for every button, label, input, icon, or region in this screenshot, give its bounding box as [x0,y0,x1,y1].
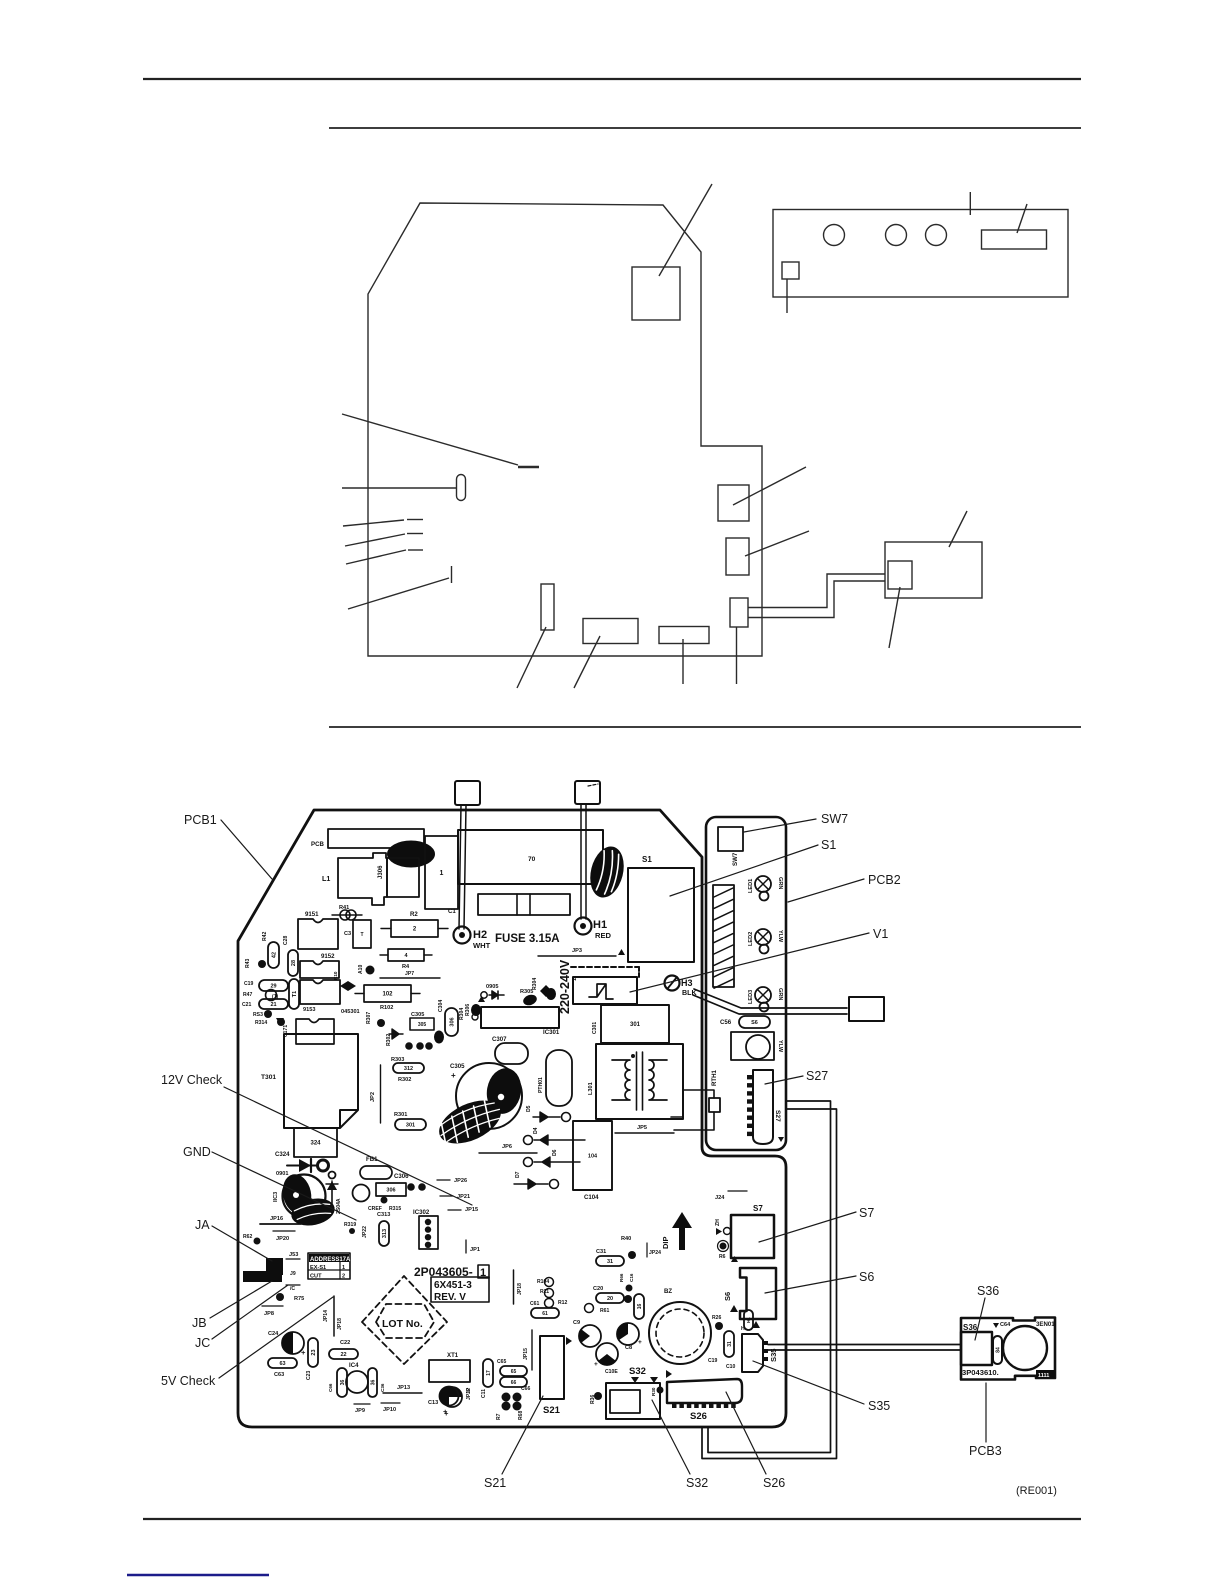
wire : mid page rule [329,726,1081,728]
jumper JP21 [440,1195,453,1197]
pin block bottom right [1036,1370,1055,1378]
svg-text:R43: R43 [245,958,251,968]
svg-text:JP3: JP3 [572,948,582,954]
wire : leader from display unit up [949,511,967,547]
wire : leader 2 with tick [345,534,405,546]
component black electrolytic blob 2 [585,843,629,901]
wire : leader to rect A [733,467,806,505]
connector rect A right side [718,485,749,521]
svg-text:R12: R12 [558,1300,568,1306]
svg-text:301: 301 [406,1122,415,1128]
svg-text:312: 312 [404,1066,413,1072]
svg-text:+: + [444,1409,449,1418]
svg-text:LED2: LED2 [748,932,754,946]
svg-text:S26: S26 [690,1411,707,1422]
node : tick at leader end [518,466,539,469]
svg-text:31: 31 [607,1259,613,1265]
svg-text:J53: J53 [289,1252,298,1258]
svg-text:9151: 9151 [305,911,319,918]
svg-text:R62: R62 [243,1234,253,1240]
wire : leader 1 with tick [343,520,404,526]
svg-text:S6: S6 [723,1292,732,1301]
svg-text:D5: D5 [526,1105,532,1112]
svg-text:16: 16 [637,1304,643,1310]
connector rect C right side [730,598,748,627]
capacitor 104 block [573,1121,612,1190]
svg-text:C171: C171 [283,1025,289,1037]
pad A10 [366,966,375,975]
svg-text:104: 104 [588,1153,598,1159]
svg-text:61: 61 [542,1311,548,1317]
LED1 [755,876,771,892]
terminal H3 [665,976,680,991]
component vertical cap 1 [425,836,458,909]
display window rect [982,230,1047,249]
svg-text:31: 31 [727,1341,733,1347]
wire : S35 to PCB3 twin lead [768,1344,961,1346]
svg-text:V1: V1 [873,927,888,941]
svg-text:RTH1: RTH1 [711,1069,718,1086]
pads R7 R68 [502,1393,511,1402]
wire : leader to vertical rect [517,627,546,688]
svg-text:R61: R61 [600,1308,610,1314]
LOT No. stamp area [362,1276,447,1364]
svg-text:C307: C307 [492,1036,507,1043]
svg-text:3P043610.: 3P043610. [962,1368,999,1377]
svg-text:L301: L301 [588,1082,594,1095]
display unit box [885,542,982,598]
svg-text:H2: H2 [473,929,487,941]
wire : leader below wide rect 2 [682,639,684,684]
svg-text:0901: 0901 [276,1171,288,1177]
svg-text:R75: R75 [294,1296,304,1302]
svg-text:JP12: JP12 [466,1388,472,1400]
svg-text:12V Check: 12V Check [161,1073,223,1087]
component black electrolytic blob 1 [387,841,435,868]
svg-text:JC: JC [195,1336,210,1350]
connector wide rect bottom 2 [659,627,709,644]
svg-text:R302: R302 [398,1077,411,1083]
button circle 2 [886,225,907,246]
pad blob left of 306 [434,1031,444,1044]
svg-text:JP15: JP15 [465,1207,478,1213]
svg-text:JP16: JP16 [270,1216,283,1222]
svg-text:R47: R47 [243,992,253,998]
svg-text:301: 301 [630,1022,641,1028]
svg-text:22: 22 [340,1352,346,1358]
component block right of L1 [387,858,419,897]
jumper JP15 [448,1209,461,1211]
component small circle [353,1185,370,1202]
svg-text:/C: /C [290,1286,295,1292]
component 301 block [601,1005,669,1043]
svg-text:J9: J9 [290,1271,296,1277]
svg-text:84: 84 [995,1347,1001,1353]
svg-text:C31: C31 [596,1249,606,1255]
svg-text:28: 28 [291,960,297,966]
wire : leader on display window [1017,204,1027,233]
svg-text:JP1: JP1 [470,1247,480,1253]
svg-text:+: + [638,1339,642,1346]
wire : lead from spade to H1 [580,804,582,919]
svg-text:C64: C64 [1000,1322,1011,1328]
svg-text:S32: S32 [686,1476,708,1490]
svg-text:R102: R102 [380,1005,393,1011]
resistor R102 [355,993,364,995]
svg-text:JP13: JP13 [397,1385,410,1391]
svg-text:C28: C28 [283,935,289,945]
svg-text:WHT: WHT [473,941,491,950]
svg-text:C56: C56 [720,1019,732,1026]
svg-text:C304: C304 [438,1000,444,1012]
svg-text:PCB2: PCB2 [868,873,901,887]
svg-text:C1: C1 [448,908,456,915]
jumper JA black block [266,1258,283,1275]
svg-text:S1: S1 [821,838,836,852]
terminal H1 [575,918,592,935]
svg-text:JP10: JP10 [383,1407,396,1413]
svg-text:T: T [360,932,363,938]
wire : leader below rect C [736,627,738,684]
button circle 1 [824,225,845,246]
svg-text:220-240V: 220-240V [558,959,572,1014]
svg-text:C21: C21 [242,1002,252,1008]
varistor V1 box [573,977,637,1004]
svg-text:REV. V: REV. V [434,1292,466,1303]
svg-text:2: 2 [342,1274,345,1280]
wire : tick on panel top [969,192,971,215]
svg-text:C63: C63 [274,1372,284,1378]
svg-text:J24: J24 [715,1195,725,1201]
connector rect B right side [726,538,749,575]
svg-text:LED3: LED3 [748,990,754,1004]
svg-text:2: 2 [413,927,417,933]
svg-text:C11: C11 [481,1389,487,1398]
svg-text:S26: S26 [763,1476,785,1490]
svg-text:JP18: JP18 [337,1318,343,1330]
svg-text:S36: S36 [977,1284,999,1298]
svg-text:A10: A10 [358,964,364,974]
svg-text:BZ: BZ [664,1288,672,1295]
connector spade terminal right [575,781,600,804]
svg-text:C66: C66 [328,1383,333,1392]
svg-text:36: 36 [340,1380,346,1386]
wire : top page rule [143,78,1081,80]
svg-text:R6: R6 [719,1254,726,1260]
wire : leader to rect B [745,531,809,556]
svg-text:H1: H1 [746,1317,751,1323]
component PTH thermal stadium [546,1050,572,1106]
svg-text:C301: C301 [592,1022,598,1034]
PCB2 board outline [706,817,786,1150]
pads row [405,1042,413,1050]
svg-text:70: 70 [528,856,536,863]
svg-text:C3: C3 [344,931,351,937]
svg-text:JP18: JP18 [517,1283,523,1295]
receiver square on panel [782,262,799,279]
svg-text:IC301: IC301 [543,1029,560,1036]
svg-text:JP5: JP5 [637,1125,647,1131]
jumper JP2 [380,1065,382,1123]
svg-text:C36: C36 [380,1383,385,1392]
wire : S27 loop to S26 [708,1101,831,1453]
svg-text:C305: C305 [450,1063,465,1070]
svg-text:JA: JA [195,1218,210,1232]
svg-text:R304: R304 [459,1008,465,1020]
svg-text:IIC3: IIC3 [273,1192,279,1202]
component L1 choke body [338,853,387,905]
svg-text:1: 1 [342,1265,345,1271]
connector S26 [667,1379,742,1403]
pad R75 [276,1293,284,1301]
connector vertical rect bottom [541,584,554,630]
connector block top-right of outline [632,267,680,320]
svg-text:R315: R315 [389,1206,401,1212]
PCB1 outline (simplified top view) [368,203,762,656]
DIP arrow [672,1212,692,1250]
PCB1 board outline [238,810,786,1427]
transistor 9153 [300,980,340,1004]
svg-text:29: 29 [270,983,276,989]
connector HA square [849,997,884,1021]
transformer T301 [284,1034,358,1128]
svg-text:LED1: LED1 [748,879,754,893]
LED2 [755,929,771,945]
jumper JP18 check point [333,1296,335,1336]
svg-text:T1: T1 [292,991,298,997]
wire : leader below receiver square [786,279,788,313]
pads [407,1183,415,1191]
svg-text:6X451-3: 6X451-3 [434,1280,472,1291]
svg-text:S27: S27 [774,1110,781,1122]
svg-text:306: 306 [449,1017,455,1026]
jumper JP1 [465,1240,467,1253]
svg-text:S1: S1 [642,855,652,864]
svg-text:R306: R306 [465,1004,471,1016]
svg-text:S6: S6 [751,1020,758,1026]
svg-text:R68: R68 [518,1410,524,1420]
jumper JP26 [437,1179,450,1181]
wire : dashed mains trace [571,966,639,968]
svg-text:ADDRESS17A: ADDRESS17A [310,1257,351,1263]
svg-text:C22: C22 [340,1340,350,1346]
svg-text:C19: C19 [244,981,254,987]
svg-text:1: 1 [572,978,578,981]
capacitor T1 stadium [289,979,299,1009]
svg-text:R2: R2 [410,911,418,918]
svg-text:20: 20 [607,1296,613,1302]
svg-text:9152: 9152 [321,953,335,960]
wire : header rule under section title [329,127,1081,129]
svg-text:R314: R314 [255,1020,267,1026]
svg-text:R30: R30 [651,1387,656,1396]
svg-text:JP8: JP8 [264,1311,274,1317]
svg-text:S35: S35 [769,1348,778,1362]
indoor unit front panel box [773,210,1068,298]
svg-text:C23: C23 [306,1370,312,1380]
connector S35 [742,1334,763,1372]
svg-text:GND: GND [183,1145,211,1159]
svg-text:C8: C8 [625,1345,632,1351]
svg-text:S27: S27 [806,1069,828,1083]
jumper JB black block [243,1271,282,1282]
jumper JP16 line [531,1330,533,1370]
svg-text:C10: C10 [726,1364,736,1370]
svg-text:3EN01: 3EN01 [1036,1321,1055,1328]
svg-text:PCB3: PCB3 [969,1444,1002,1458]
address table [308,1253,350,1279]
svg-text:JP24: JP24 [649,1250,661,1256]
svg-text:C13: C13 [428,1400,438,1406]
component hatched ellipse blob [432,1092,507,1153]
component PCB bar [328,829,424,848]
connector stadium on left [457,475,466,501]
receiver square inside display unit [888,561,912,589]
svg-text:JP2: JP2 [370,1092,376,1102]
svg-text:66: 66 [511,1380,517,1386]
receiver S36 on PCB3 [961,1332,992,1365]
svg-text:R36: R36 [590,1394,596,1404]
wire : lead from spade to H2 [459,805,461,929]
svg-text:R7: R7 [496,1413,502,1420]
svg-text:PCB1: PCB1 [184,813,217,827]
svg-text:17: 17 [486,1370,492,1376]
svg-text:0905: 0905 [486,984,498,990]
svg-text:R302: R302 [386,1034,392,1046]
svg-text:IC302: IC302 [413,1209,430,1216]
svg-text:YLW: YLW [777,1040,783,1053]
svg-text:C20: C20 [593,1286,603,1292]
svg-text:23: 23 [311,1349,317,1355]
svg-text:1111: 1111 [1038,1373,1049,1379]
svg-text:SW7: SW7 [732,852,739,866]
svg-text:63: 63 [279,1361,285,1367]
svg-text:JP6: JP6 [502,1144,512,1150]
wire : leader to stadium [342,487,456,489]
svg-text:XT1: XT1 [447,1352,459,1359]
svg-text:J306: J306 [377,865,384,879]
svg-text:GRN: GRN [777,877,783,889]
svg-text:JP14: JP14 [323,1310,329,1322]
revision marks [431,1277,489,1302]
svg-text:JB: JB [192,1316,207,1330]
svg-text:JP26: JP26 [454,1178,467,1184]
svg-text:R66: R66 [619,1273,624,1282]
button circle 3 [926,225,947,246]
wire : twin lead H3 to HA connector [694,989,847,1008]
svg-text:R307: R307 [366,1012,372,1024]
component 324 block [294,1128,337,1157]
buzzer block with circle [731,1032,774,1060]
wire : leader from receiver down [889,587,900,648]
svg-text:S21: S21 [484,1476,506,1490]
svg-text:CUT: CUT [310,1274,322,1280]
connector S6 [740,1268,776,1319]
svg-text:C66: C66 [521,1386,531,1392]
svg-text:C305: C305 [411,1012,424,1018]
component fuse holder block 70 [458,830,603,884]
svg-text:JP9: JP9 [355,1408,365,1414]
svg-text:S36: S36 [963,1323,978,1332]
PCB3 board [961,1318,1055,1380]
capacitor C8 [617,1323,639,1345]
component 3-section block [478,894,570,915]
svg-text:H1: H1 [593,919,607,931]
svg-text:21: 21 [270,1002,276,1008]
svg-text:C324: C324 [275,1151,290,1158]
svg-text:+: + [451,1071,456,1080]
svg-text:R104: R104 [537,1279,549,1285]
svg-text:JP20: JP20 [276,1236,289,1242]
svg-text:RS3: RS3 [253,1012,263,1018]
svg-text:PCB: PCB [311,841,324,848]
svg-text:L1: L1 [322,875,330,883]
svg-text:313: 313 [382,1229,388,1238]
jumper JP8 [262,1305,283,1307]
svg-text:42: 42 [271,952,277,958]
svg-text:C313: C313 [377,1212,390,1218]
IC IC301 hybrid [481,1007,559,1028]
svg-text:D4: D4 [533,1127,539,1134]
switch SW7 [718,827,743,851]
svg-text:(1): (1) [272,994,279,1000]
svg-text:R319: R319 [344,1222,356,1228]
svg-text:DIP: DIP [661,1236,670,1249]
capacitor C19b [724,1331,734,1357]
svg-text:RED: RED [595,931,612,940]
resistor R4 [380,954,388,956]
svg-text:045301: 045301 [341,1009,360,1015]
wire : leader into connector block [659,184,712,276]
svg-text:EX-S1: EX-S1 [310,1265,326,1271]
svg-text:R42: R42 [262,931,268,941]
svg-text:C16: C16 [629,1273,634,1282]
connector S21 [540,1336,564,1399]
capacitor at JP12 [440,1387,459,1406]
svg-text:S6: S6 [859,1270,874,1284]
component black blob under cap [289,1195,337,1230]
diamond pad [340,981,356,991]
svg-text:D6: D6 [552,1149,558,1156]
svg-text:JP7: JP7 [405,971,414,977]
svg-text:SW7: SW7 [821,812,848,826]
svg-text:D7: D7 [515,1171,521,1178]
svg-text:306: 306 [386,1187,395,1193]
svg-text:R304: R304 [532,978,538,990]
connector hatched label EX451-3 [713,885,734,987]
svg-text:5V Check: 5V Check [161,1374,216,1388]
svg-text:S21: S21 [543,1405,561,1416]
diode D301 [287,1165,318,1167]
receiver lens circle [1003,1326,1047,1370]
svg-text:S35: S35 [868,1399,890,1413]
svg-text:FUSE 3.15A: FUSE 3.15A [495,933,560,945]
svg-text:65: 65 [511,1369,517,1375]
svg-text:C104: C104 [584,1194,599,1201]
svg-text:LOT No.: LOT No. [382,1318,423,1330]
capacitor C17 stadium [483,1359,493,1387]
wire : leader 4 long [348,578,449,609]
wire : leader 3 with tick [346,550,406,564]
svg-text:PTH01: PTH01 [538,1077,544,1093]
relay S1 body [628,868,694,962]
capacitor C23 stadium [308,1338,318,1367]
wire : bottom page rule [143,1518,1081,1520]
svg-text:C9: C9 [573,1320,580,1326]
svg-text:R10: R10 [333,971,338,980]
component 84 stadium [993,1336,1002,1364]
svg-text:R4: R4 [402,964,410,970]
